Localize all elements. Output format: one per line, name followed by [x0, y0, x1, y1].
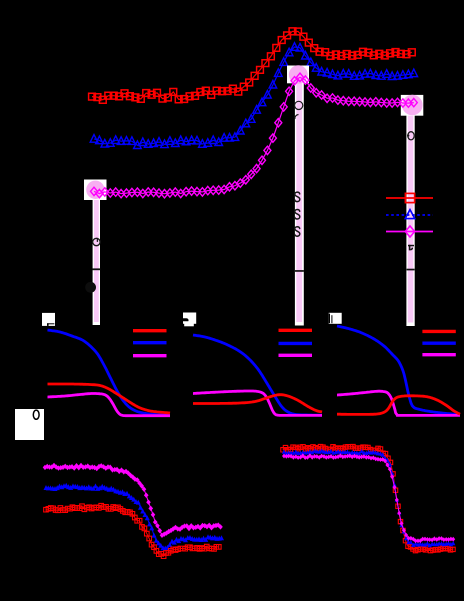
tick label fragment on bar 1 — [85, 282, 96, 293]
marker box 3 — [401, 95, 424, 116]
bottom right magenta data line — [284, 456, 453, 541]
top panel red square markers — [89, 28, 416, 103]
bottom right blue data line — [284, 451, 453, 545]
panel f blue curve — [48, 330, 171, 415]
panel h magenta curve — [337, 391, 460, 415]
bottom left magenta diamond markers — [43, 463, 223, 538]
panel h label box — [329, 313, 342, 324]
marker circle 1 — [86, 181, 104, 199]
top panel axis line crossing bar 3 — [407, 269, 415, 271]
panel g legend — [279, 330, 313, 355]
legend blue entry — [386, 210, 433, 219]
panel f magenta curve — [48, 394, 171, 416]
highlight bar 2 pink fill — [296, 82, 302, 322]
bottom left red square markers — [44, 503, 221, 558]
legend magenta entry — [386, 226, 433, 237]
bar 3 rotated glyph e — [407, 132, 414, 140]
panel h blue curve — [337, 326, 460, 415]
bottom left red data line — [46, 506, 219, 557]
bar 2 rotated glyph e — [295, 101, 303, 119]
marker circle 3 — [402, 95, 423, 116]
top panel axis line crossing bar 1 — [92, 268, 100, 270]
bottom left blue triangle markers — [44, 483, 225, 551]
highlight bar 1 white edge — [93, 199, 100, 325]
top panel blue triangle markers — [90, 43, 417, 149]
bottom right red square markers — [281, 444, 455, 552]
highlight bar 1 pink fill — [94, 199, 99, 322]
bar 2 letters SSS — [295, 192, 300, 236]
panel f label box — [42, 313, 55, 326]
zero tick label box — [15, 409, 44, 440]
bottom right red data line — [283, 447, 453, 551]
panel g magenta curve — [193, 391, 322, 415]
panel h legend — [422, 331, 455, 354]
panel h red curve — [337, 396, 460, 415]
legend red entry — [386, 193, 433, 202]
bar 1 rotated glyph G — [93, 238, 100, 246]
bottom left blue data line — [46, 486, 222, 549]
bottom right magenta diamond markers — [282, 453, 455, 543]
top panel axis line crossing bar 2 — [295, 270, 304, 272]
panel g blue curve — [193, 335, 322, 415]
marker box 2 — [287, 66, 309, 84]
bottom right blue triangle markers — [282, 448, 456, 547]
marker circle 2 — [289, 65, 308, 84]
top panel magenta diamond markers — [91, 73, 418, 198]
top panel red data line — [92, 31, 412, 100]
panel f legend — [133, 331, 167, 356]
panel f red curve — [48, 384, 171, 413]
bar 3 glyph D — [408, 245, 414, 251]
bottom left magenta data line — [45, 465, 221, 535]
highlight bar 3 white edge — [406, 115, 414, 326]
top panel blue data line — [94, 47, 414, 145]
panel g label box — [183, 313, 196, 327]
top panel magenta data line — [94, 77, 414, 193]
marker box 1 — [84, 180, 107, 201]
highlight bar 2 white edge — [295, 82, 304, 326]
panel g red curve — [193, 395, 322, 412]
highlight bar 3 pink fill — [408, 115, 414, 323]
